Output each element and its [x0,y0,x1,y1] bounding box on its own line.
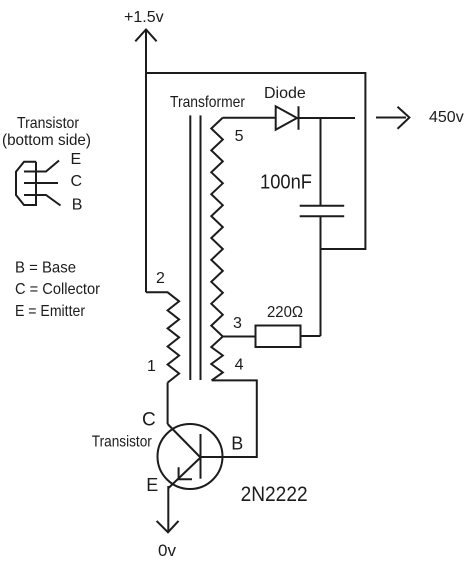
svg-text:C: C [71,173,83,190]
legend transistor package outline (bottom view) [16,162,36,205]
450v output arrow [376,107,409,129]
capacitor C1 [300,118,345,336]
wire: pin 4 to transistor base [202,380,257,457]
pin 3 label [233,315,242,332]
base terminal label B [231,433,243,453]
svg-text:Transistor: Transistor [17,115,80,132]
0v net label [158,541,176,560]
transistor collector stroke [168,424,201,458]
legend base lead [24,195,61,206]
0v arrowhead [157,521,179,532]
emitter arrowhead [179,467,192,479]
transformer primary winding (pin 2 to pin 1) [146,292,179,382]
+1.5v net label [124,9,164,26]
legend text C = Collector [15,281,101,298]
wire: +1.5v rail down to primary pin 2 [145,30,147,293]
transistor part number 2N2222 [241,483,308,506]
transformer label [170,94,246,111]
resistor value label 220Ω [267,304,303,321]
legend title: (bottom side) [2,132,91,149]
wire: secondary pin 5 to diode anode [223,117,276,119]
wire: pin 3 tap to resistor [223,336,256,338]
svg-text:4: 4 [235,357,244,374]
svg-text:C = Collector: C = Collector [15,281,101,298]
diode D1 [276,106,299,129]
svg-text:3: 3 [233,315,242,332]
wire: resistor to capacitor node [301,335,321,337]
svg-text:1: 1 [147,358,156,375]
transistor label [92,434,153,451]
pin 4 label [235,357,244,374]
svg-text:C: C [142,409,156,430]
svg-text:450v: 450v [429,109,464,126]
svg-text:+1.5v: +1.5v [124,9,164,26]
svg-text:0v: 0v [158,541,176,560]
svg-text:Transistor: Transistor [92,434,153,451]
capacitor value label 100nF [260,172,312,194]
svg-text:B: B [231,433,243,453]
wire: top rail to the right [145,72,365,74]
legend text E = Emitter [15,303,86,320]
wire: diode cathode to output node [299,117,356,119]
wire: primary pin 1 to collector [167,383,169,424]
collector terminal label C [142,409,156,430]
svg-text:Transformer: Transformer [170,94,246,111]
wire: emitter to 0v [167,486,169,532]
transistor Q1 circle [158,424,223,489]
legend title: Transistor [17,115,80,132]
legend emitter lead [24,161,59,172]
svg-text:B: B [72,197,83,214]
legend text B = Base [15,260,76,277]
svg-text:2: 2 [156,270,165,287]
svg-text:B = Base: B = Base [15,260,76,277]
pin 2 label [156,270,165,287]
emitter terminal label E [146,475,158,495]
svg-text:E = Emitter: E = Emitter [15,303,86,320]
transformer secondary winding (pin 5 to pin 3 to pin 4) [211,118,223,381]
svg-text:220Ω: 220Ω [267,304,303,321]
transistor base bar [200,434,202,479]
svg-text:100nF: 100nF [260,172,312,194]
+1.5v arrowhead [135,30,156,42]
legend collector lead [24,182,58,184]
svg-text:Diode: Diode [264,85,306,102]
wire: capacitor bottom node to right rail [321,248,366,250]
svg-text:E: E [71,151,82,168]
pin 5 label [235,128,244,145]
wire: right vertical rail [364,72,366,250]
svg-text:2N2222: 2N2222 [241,483,308,506]
transformer core [190,115,200,380]
transistor emitter stroke [168,458,201,489]
pin 1 label [147,358,156,375]
legend pin label C [71,173,83,190]
svg-text:(bottom side): (bottom side) [2,132,91,149]
450v net label [429,109,464,126]
svg-text:5: 5 [235,128,244,145]
svg-text:E: E [146,475,158,495]
resistor R1 [256,326,301,348]
legend pin label E [71,151,82,168]
diode label [264,85,306,102]
legend pin label B [72,197,83,214]
